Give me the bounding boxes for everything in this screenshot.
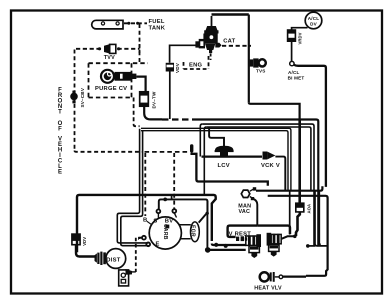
label AOA xyxy=(306,204,311,214)
wire: dashed to CAT xyxy=(222,45,251,47)
wire H1: main line y=119.5 xyxy=(162,120,318,246)
V REST supply line xyxy=(228,226,258,237)
wire: DV-TW down to H1 corner xyxy=(144,106,162,119)
wire: S/EGR branch line y=199.4 xyxy=(159,199,208,214)
label F xyxy=(138,236,141,241)
svg-text:VCK V: VCK V xyxy=(261,163,280,169)
wire: vck pair feed down to CV2 xyxy=(289,191,291,235)
purge CV dashed box xyxy=(89,63,149,97)
wire: bi-met elbow right and down xyxy=(294,65,326,187)
wire: A/CL DV to VRDV xyxy=(292,28,308,30)
wire tube P inner: y=127 xyxy=(206,127,311,191)
label MAN VAC xyxy=(238,203,251,215)
wire S stem xyxy=(157,213,159,218)
svg-text:CAT: CAT xyxy=(223,38,235,44)
svg-text:T: T xyxy=(58,110,62,116)
svg-text:F: F xyxy=(58,127,62,133)
wire: CV2 elbow to AOA foot xyxy=(282,236,295,239)
wire: nest corner verticals to LCV line xyxy=(200,124,202,156)
label LCV xyxy=(218,163,230,169)
svg-text:A/CL: A/CL xyxy=(288,70,300,75)
svg-text:EGR: EGR xyxy=(189,225,195,237)
node near AOA foot xyxy=(293,235,297,239)
check valve CV1 xyxy=(246,234,261,258)
label S xyxy=(153,218,157,224)
label TVV xyxy=(104,55,115,61)
wire: dashed vertical to carb BV xyxy=(173,153,175,209)
svg-text:TVS: TVS xyxy=(256,69,266,74)
SV-CBV valve xyxy=(70,91,78,104)
svg-text:SV–CBV: SV–CBV xyxy=(80,87,85,107)
A/CL DV circle xyxy=(305,12,322,29)
fuel tank separator xyxy=(92,20,123,29)
wire: pair down-left from tube corner xyxy=(117,129,148,246)
node xyxy=(214,243,218,247)
wire tube Q lower xyxy=(141,131,288,191)
label HEAT VLV xyxy=(254,286,282,292)
AOA valve xyxy=(296,203,304,212)
wire H3: LCV supply xyxy=(209,127,224,147)
svg-text:DIST: DIST xyxy=(106,257,120,263)
label CAT xyxy=(223,38,235,44)
V REST restrictor xyxy=(236,236,247,241)
wire: vertical to junction blob xyxy=(206,201,208,248)
distributor nipple xyxy=(95,252,106,265)
node blob xyxy=(205,247,211,253)
VRDV valve xyxy=(288,30,296,41)
svg-text:B: B xyxy=(143,218,147,224)
svg-text:AOA: AOA xyxy=(306,204,311,214)
label VCK V xyxy=(261,163,280,169)
label FRONT OF VEHICLE xyxy=(58,88,63,176)
wire: thick AOA feed vertical xyxy=(298,119,301,204)
wire: right pair down to heater line xyxy=(315,191,327,246)
svg-text:VAC: VAC xyxy=(239,209,251,215)
svg-text:ENG: ENG xyxy=(189,62,203,68)
VCK V check valve xyxy=(263,152,276,160)
wire: corner to AOA drop xyxy=(249,102,300,118)
TVS valve xyxy=(250,58,266,67)
label SV-CBV xyxy=(80,87,85,107)
wire: man vac line y=190.8 xyxy=(256,186,322,190)
svg-text:BV: BV xyxy=(165,219,174,225)
wire B diagonal xyxy=(147,221,152,225)
wire: dashed corner at bottom of SV-CBV line xyxy=(75,151,144,152)
air bypass valve xyxy=(195,16,221,53)
wire: VDV down elbow to dist xyxy=(76,245,97,257)
node BV port xyxy=(172,209,176,213)
wire: dashed line through TVV xyxy=(76,44,140,53)
svg-text:VDV: VDV xyxy=(82,237,87,246)
svg-text:LCV: LCV xyxy=(218,163,230,169)
wire: dashed vertical to carb B xyxy=(144,153,146,216)
label E xyxy=(156,242,160,248)
wire: pin down elbow to y181.5 line xyxy=(192,153,268,186)
purge CV valve xyxy=(100,69,136,84)
wire: thick manifold line y=195 xyxy=(77,195,216,252)
wire: left dashed vertical to SV-CBV xyxy=(74,50,76,151)
wire: purge to DV-TW elbow xyxy=(136,77,145,92)
carburetor CARB xyxy=(149,217,181,249)
label TVS xyxy=(256,69,266,74)
svg-text:BI MET: BI MET xyxy=(288,76,305,81)
VDV valve upper xyxy=(166,45,196,71)
carb fuel solenoid box xyxy=(119,269,136,286)
DV-TW valve xyxy=(140,92,149,106)
wire: dashed below purge box right xyxy=(134,98,140,127)
label BV xyxy=(165,219,174,225)
wire: heat line continues (drawn with man vac y=195.8 path) xyxy=(283,276,306,278)
node E port xyxy=(146,242,150,246)
wire: VDV down to H1 xyxy=(169,72,171,120)
MAN VAC fitting xyxy=(241,187,256,200)
wire: man vac riser to V REST line xyxy=(254,199,257,226)
svg-text:TVV: TVV xyxy=(104,55,115,61)
wire tube Q (grey pair) upper xyxy=(141,128,291,191)
node S port xyxy=(157,209,161,213)
label V REST xyxy=(229,232,252,238)
wire: valve top line to TVS drop xyxy=(212,13,249,15)
node F port xyxy=(142,236,146,240)
wire: LCV to VCK V line xyxy=(202,156,263,158)
wire: vertical x=249 down xyxy=(248,15,250,103)
svg-text:HEAT VLV: HEAT VLV xyxy=(254,286,282,292)
node xyxy=(224,244,228,248)
wire: fuel tank dashed to label xyxy=(124,22,147,25)
wire: EGR riser diagonal xyxy=(199,213,207,222)
svg-text:VRDV: VRDV xyxy=(298,32,303,44)
wire: v-rest branch lower with node xyxy=(208,249,246,251)
wire: stub from y195 to branch xyxy=(171,196,173,199)
label FUEL TANK xyxy=(149,19,166,31)
label ENG xyxy=(189,62,203,68)
wire: AOA down jog to check valves xyxy=(296,212,300,236)
label VDV xyxy=(175,62,180,73)
node on riser xyxy=(206,212,209,215)
label DV-TW xyxy=(152,91,157,109)
svg-text:DV: DV xyxy=(310,21,318,26)
wire: dashed valve to ENG box xyxy=(210,54,212,61)
label VDV xyxy=(82,237,87,246)
wire tube P outer: y=124.1 xyxy=(202,124,314,246)
label A/CL BI MET xyxy=(288,70,305,81)
svg-text:S: S xyxy=(153,218,157,224)
wire: dashed spark line to pin xyxy=(145,151,190,153)
wire: VCK V to right corner down xyxy=(275,157,285,191)
check valve CV2 xyxy=(267,233,282,257)
node junction on branch xyxy=(163,198,167,202)
svg-text:A/CL: A/CL xyxy=(308,16,320,21)
svg-text:PURGE CV: PURGE CV xyxy=(95,86,127,92)
node stub left of y246 xyxy=(307,245,315,247)
TVV valve xyxy=(105,44,116,53)
svg-text:DV–TW: DV–TW xyxy=(152,91,157,109)
label PURGE CV xyxy=(95,86,127,92)
LCV valve xyxy=(215,139,234,157)
wire: man vac line y=195.8 xyxy=(268,196,328,276)
ENG dashed box xyxy=(184,56,209,69)
svg-text:E: E xyxy=(58,170,62,176)
svg-text:VDV: VDV xyxy=(175,62,180,73)
svg-text:E: E xyxy=(156,242,160,248)
wire BV stem xyxy=(174,213,176,218)
node on heat line xyxy=(279,275,283,279)
svg-text:FUEL: FUEL xyxy=(149,19,165,25)
LCV pin terminal xyxy=(190,144,193,152)
wire: dashed vertical from tank junction xyxy=(139,24,141,63)
label VRDV xyxy=(298,32,303,44)
node A/CL BI MET xyxy=(290,61,294,65)
wire: v-rest branch upper with node xyxy=(212,244,246,246)
EGR valve xyxy=(179,222,199,242)
wire: F dashed down to solenoid xyxy=(136,238,142,272)
heat valve HEAT VLV xyxy=(260,272,275,282)
distributor DIST xyxy=(106,249,126,269)
VDV valve lower xyxy=(72,234,80,245)
label B xyxy=(143,218,147,224)
wire: VRDV to bi-met node xyxy=(291,41,293,61)
wire: heat valve to node xyxy=(275,276,279,278)
svg-text:TANK: TANK xyxy=(149,25,166,31)
